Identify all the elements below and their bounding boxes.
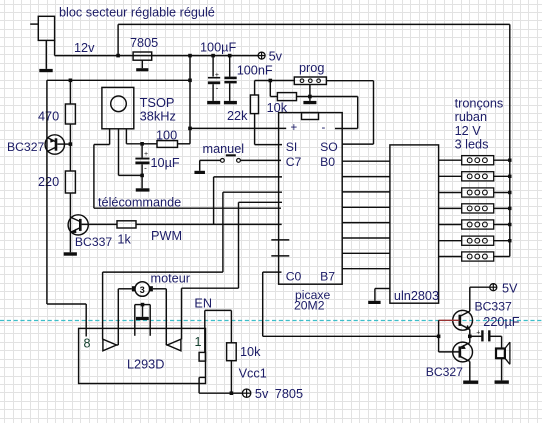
wire B3 xyxy=(342,206,390,208)
resistor R7 10k label xyxy=(240,345,261,359)
ground motor xyxy=(136,317,149,320)
capacitor C1 100uF xyxy=(208,56,220,101)
svg-text:5V: 5V xyxy=(502,282,518,296)
svg-text:BC327: BC327 xyxy=(7,140,44,154)
label PWM xyxy=(151,229,182,243)
wire plug output xyxy=(46,40,54,69)
wire 5v rail left xyxy=(47,79,190,81)
resistor R6 10k prog xyxy=(270,81,310,101)
LED strip segment 3 xyxy=(439,188,512,197)
svg-text:38kHz: 38kHz xyxy=(140,109,176,124)
wire telecommande xyxy=(94,207,281,209)
wire tsop vcc xyxy=(126,129,142,144)
svg-text:bloc secteur réglable régulé: bloc secteur réglable régulé xyxy=(59,6,215,20)
svg-text:20M2: 20M2 xyxy=(294,299,325,313)
label pin 1 xyxy=(195,335,202,349)
wire Q3 base red xyxy=(439,319,460,321)
wire motor left xyxy=(117,289,132,345)
wire uln gnd xyxy=(375,289,390,301)
label troncons xyxy=(455,97,504,152)
power 5V symbol right xyxy=(490,282,518,296)
resistor R4 1k label xyxy=(117,233,131,247)
svg-text:BC337: BC337 xyxy=(475,300,512,314)
wire 12v rail xyxy=(55,55,259,57)
resistor R5 22k xyxy=(250,81,258,145)
node 470 top xyxy=(69,79,73,83)
svg-text:+: + xyxy=(215,72,219,79)
wire B4 xyxy=(342,222,390,224)
wire 7805 tab xyxy=(141,60,143,68)
wire motor right xyxy=(153,289,168,345)
title label xyxy=(59,6,215,20)
node 5v out xyxy=(188,54,192,58)
svg-text:SO: SO xyxy=(320,140,338,154)
svg-text:SI: SI xyxy=(286,140,298,154)
resistor R7 10k xyxy=(227,343,237,393)
wire prog gnd xyxy=(309,85,311,101)
node 5v rail xyxy=(188,79,192,83)
IC U5 L293D xyxy=(79,328,206,383)
power 5v symbol xyxy=(258,50,283,64)
wire manuel gnd xyxy=(200,160,221,170)
svg-text:12v: 12v xyxy=(74,41,95,55)
label BC327 left xyxy=(7,140,44,154)
transistor Q3 BC337 xyxy=(453,310,473,336)
resistor R1 470 label xyxy=(38,110,59,124)
node 12v xyxy=(116,54,120,58)
node 5v to picaxe xyxy=(188,127,192,131)
label TSOP xyxy=(140,95,176,124)
svg-text:+: + xyxy=(291,122,298,134)
ground C1 xyxy=(207,101,220,104)
svg-text:tronçons: tronçons xyxy=(455,97,504,111)
wire C0 xyxy=(263,272,439,336)
svg-text:C0: C0 xyxy=(286,269,302,283)
resistor R4 1k xyxy=(117,221,136,228)
transistor Q1 BC327 xyxy=(45,80,70,304)
speaker LS1 xyxy=(496,342,510,380)
label picaxe pins xyxy=(286,122,338,283)
wire B7 xyxy=(342,268,390,270)
node bases xyxy=(437,335,441,339)
svg-text:220: 220 xyxy=(38,175,59,189)
label BC337 left xyxy=(75,235,112,249)
svg-text:5v: 5v xyxy=(255,387,269,401)
capacitor C3 10uF xyxy=(135,144,149,189)
ground plug xyxy=(39,69,52,72)
wire 5v vertical xyxy=(189,56,191,144)
svg-text:Vcc1: Vcc1 xyxy=(239,367,267,381)
wire pin8 xyxy=(47,304,86,337)
wire B0 xyxy=(342,160,390,162)
wire motor ground xyxy=(135,305,150,336)
wire B6 xyxy=(342,252,390,254)
svg-text:B7: B7 xyxy=(320,269,335,283)
wire serial-in top xyxy=(255,80,295,82)
LED strip segment 1 xyxy=(439,156,512,165)
picaxe stub pin 1 xyxy=(271,239,289,241)
wire picaxe pin row B xyxy=(103,192,282,339)
IC U4 uln2803 xyxy=(390,145,439,303)
svg-text:8: 8 xyxy=(84,337,91,351)
svg-text:-: - xyxy=(144,163,147,172)
power plug J1 xyxy=(38,16,54,40)
svg-text:3 leds: 3 leds xyxy=(455,138,489,152)
wire vcc1 xyxy=(199,377,242,393)
pin1 notch xyxy=(199,352,205,361)
svg-text:télécommande: télécommande xyxy=(98,196,181,210)
transistor Q4 BC327 xyxy=(439,336,473,380)
svg-text:1k: 1k xyxy=(117,233,131,247)
LED strip segment 2 xyxy=(439,172,512,181)
pink guide line xyxy=(0,322,542,324)
label EN xyxy=(194,297,212,311)
wire B1 xyxy=(342,176,390,178)
picaxe stub pin 2 xyxy=(271,255,289,257)
svg-text:+: + xyxy=(476,329,480,336)
node prog gnd xyxy=(308,95,312,99)
switch S1 manuel xyxy=(221,154,241,162)
svg-text:B0: B0 xyxy=(320,155,335,169)
svg-text:10µF: 10µF xyxy=(151,156,180,170)
node tsop gnd xyxy=(140,174,144,178)
transistor Q2 BC337 xyxy=(68,215,117,253)
svg-text:BC337: BC337 xyxy=(75,235,112,249)
wire picaxe pin row C xyxy=(182,202,283,339)
resistor R2 220 label xyxy=(38,175,59,189)
svg-text:1: 1 xyxy=(195,335,202,349)
ground manuel xyxy=(194,171,205,174)
wire EN xyxy=(205,310,232,352)
node audio out xyxy=(468,335,472,339)
svg-text:manuel: manuel xyxy=(203,142,245,156)
label BC337 right xyxy=(475,300,512,314)
LED strip segment 5 xyxy=(439,220,512,229)
label Vcc1 xyxy=(239,367,267,381)
resistor R3 100 label xyxy=(156,129,177,143)
node tsop vcc xyxy=(140,142,144,146)
ground Q4 xyxy=(463,381,478,384)
svg-text:100µF: 100µF xyxy=(200,41,236,55)
driver buffer right xyxy=(167,339,181,351)
svg-text:prog: prog xyxy=(299,61,324,75)
svg-text:220µF: 220µF xyxy=(483,315,519,329)
motor M1 xyxy=(132,282,153,297)
svg-text:100nF: 100nF xyxy=(237,63,273,77)
wire B2 xyxy=(342,191,390,193)
label 100uF xyxy=(200,41,236,55)
ground C3 xyxy=(136,188,150,191)
svg-text:moteur: moteur xyxy=(151,272,191,286)
ground C2 xyxy=(224,101,237,104)
wire 5v to picaxe plus xyxy=(190,127,286,129)
ground speaker xyxy=(495,380,509,383)
wire 5V to Q3 xyxy=(470,287,490,311)
svg-text:12 V: 12 V xyxy=(455,124,482,138)
wire bases xyxy=(438,320,440,352)
node si-10k xyxy=(269,79,273,83)
power 5v 7805 symbol xyxy=(242,387,303,401)
svg-text:ruban: ruban xyxy=(455,110,487,124)
ground prog xyxy=(303,101,316,104)
connector J2 prog xyxy=(294,77,326,85)
wire SO to prog xyxy=(326,81,373,144)
label 220uF xyxy=(483,315,519,329)
driver buffer left xyxy=(103,339,117,351)
wire switch to C7 xyxy=(240,159,281,161)
resistor R6 10k prog label xyxy=(267,101,288,115)
svg-text:BC327: BC327 xyxy=(426,365,463,379)
IC U1 picaxe 20M2 xyxy=(279,113,343,285)
wire 12v right bus xyxy=(509,24,511,256)
label pin 8 xyxy=(84,337,91,351)
label manuel xyxy=(203,142,245,156)
svg-text:L293D: L293D xyxy=(127,358,164,372)
svg-text:5v: 5v xyxy=(269,50,283,64)
wire gnd to minus pin xyxy=(310,97,358,129)
label picaxe name xyxy=(294,288,330,313)
wire 12v top run xyxy=(118,23,510,25)
svg-text:C7: C7 xyxy=(286,155,302,169)
node cap2 xyxy=(228,54,232,58)
label 100nF xyxy=(237,63,273,77)
wire mains stub xyxy=(30,23,38,25)
node vcc1 xyxy=(230,391,234,395)
regulator U2 7805 label xyxy=(130,36,158,50)
label BC327 right xyxy=(426,365,463,379)
capacitor C4 220uF xyxy=(470,329,502,348)
cyan dashed guide line xyxy=(0,320,542,322)
svg-text:470: 470 xyxy=(38,110,59,124)
wire tsop out xyxy=(94,129,110,208)
svg-text:PWM: PWM xyxy=(151,229,182,243)
ground uln xyxy=(368,301,380,304)
svg-text:-: - xyxy=(322,122,326,134)
ground 7805 xyxy=(136,68,148,71)
wire 12v to top xyxy=(117,24,119,55)
resistor R1 470 xyxy=(65,80,75,144)
wire B5 xyxy=(342,237,390,239)
wire 22k to SI xyxy=(255,144,282,146)
label telecommande xyxy=(98,196,181,210)
svg-text:10k: 10k xyxy=(240,345,261,359)
LED strip segment 4 xyxy=(439,204,512,213)
svg-text:uln2803: uln2803 xyxy=(394,289,439,303)
svg-text:-: - xyxy=(216,84,219,93)
svg-text:+: + xyxy=(144,151,148,158)
svg-text:7805: 7805 xyxy=(130,36,158,50)
IR receiver U3 TSOP xyxy=(102,87,134,128)
label L293D xyxy=(127,358,164,372)
svg-text:22k: 22k xyxy=(227,109,248,123)
capacitor C2 100nF xyxy=(224,56,236,101)
node cap1 xyxy=(211,54,215,58)
resistor R3 100 xyxy=(142,141,190,148)
LED strip segment 6 xyxy=(439,236,512,245)
node bc327 base xyxy=(69,142,73,146)
resistor R2 220 xyxy=(65,144,75,215)
wire PWM xyxy=(136,223,282,225)
label 12v xyxy=(74,41,95,55)
regulator U2 7805 xyxy=(133,52,152,60)
svg-text:7805: 7805 xyxy=(275,387,303,401)
LED strip segment 7 xyxy=(439,252,510,261)
wire tsop gnd xyxy=(119,129,143,176)
label moteur xyxy=(151,272,191,286)
svg-text:3: 3 xyxy=(140,285,145,295)
capacitor C3 10uF label xyxy=(151,156,180,170)
resistor R5 22k label xyxy=(227,109,248,123)
node motor gnd xyxy=(141,303,145,307)
ground Q2 emitter xyxy=(64,252,77,255)
wire picaxe pin row A xyxy=(214,177,282,225)
label prog xyxy=(299,61,324,75)
label uln2803 xyxy=(394,289,439,303)
svg-text:EN: EN xyxy=(194,297,212,311)
